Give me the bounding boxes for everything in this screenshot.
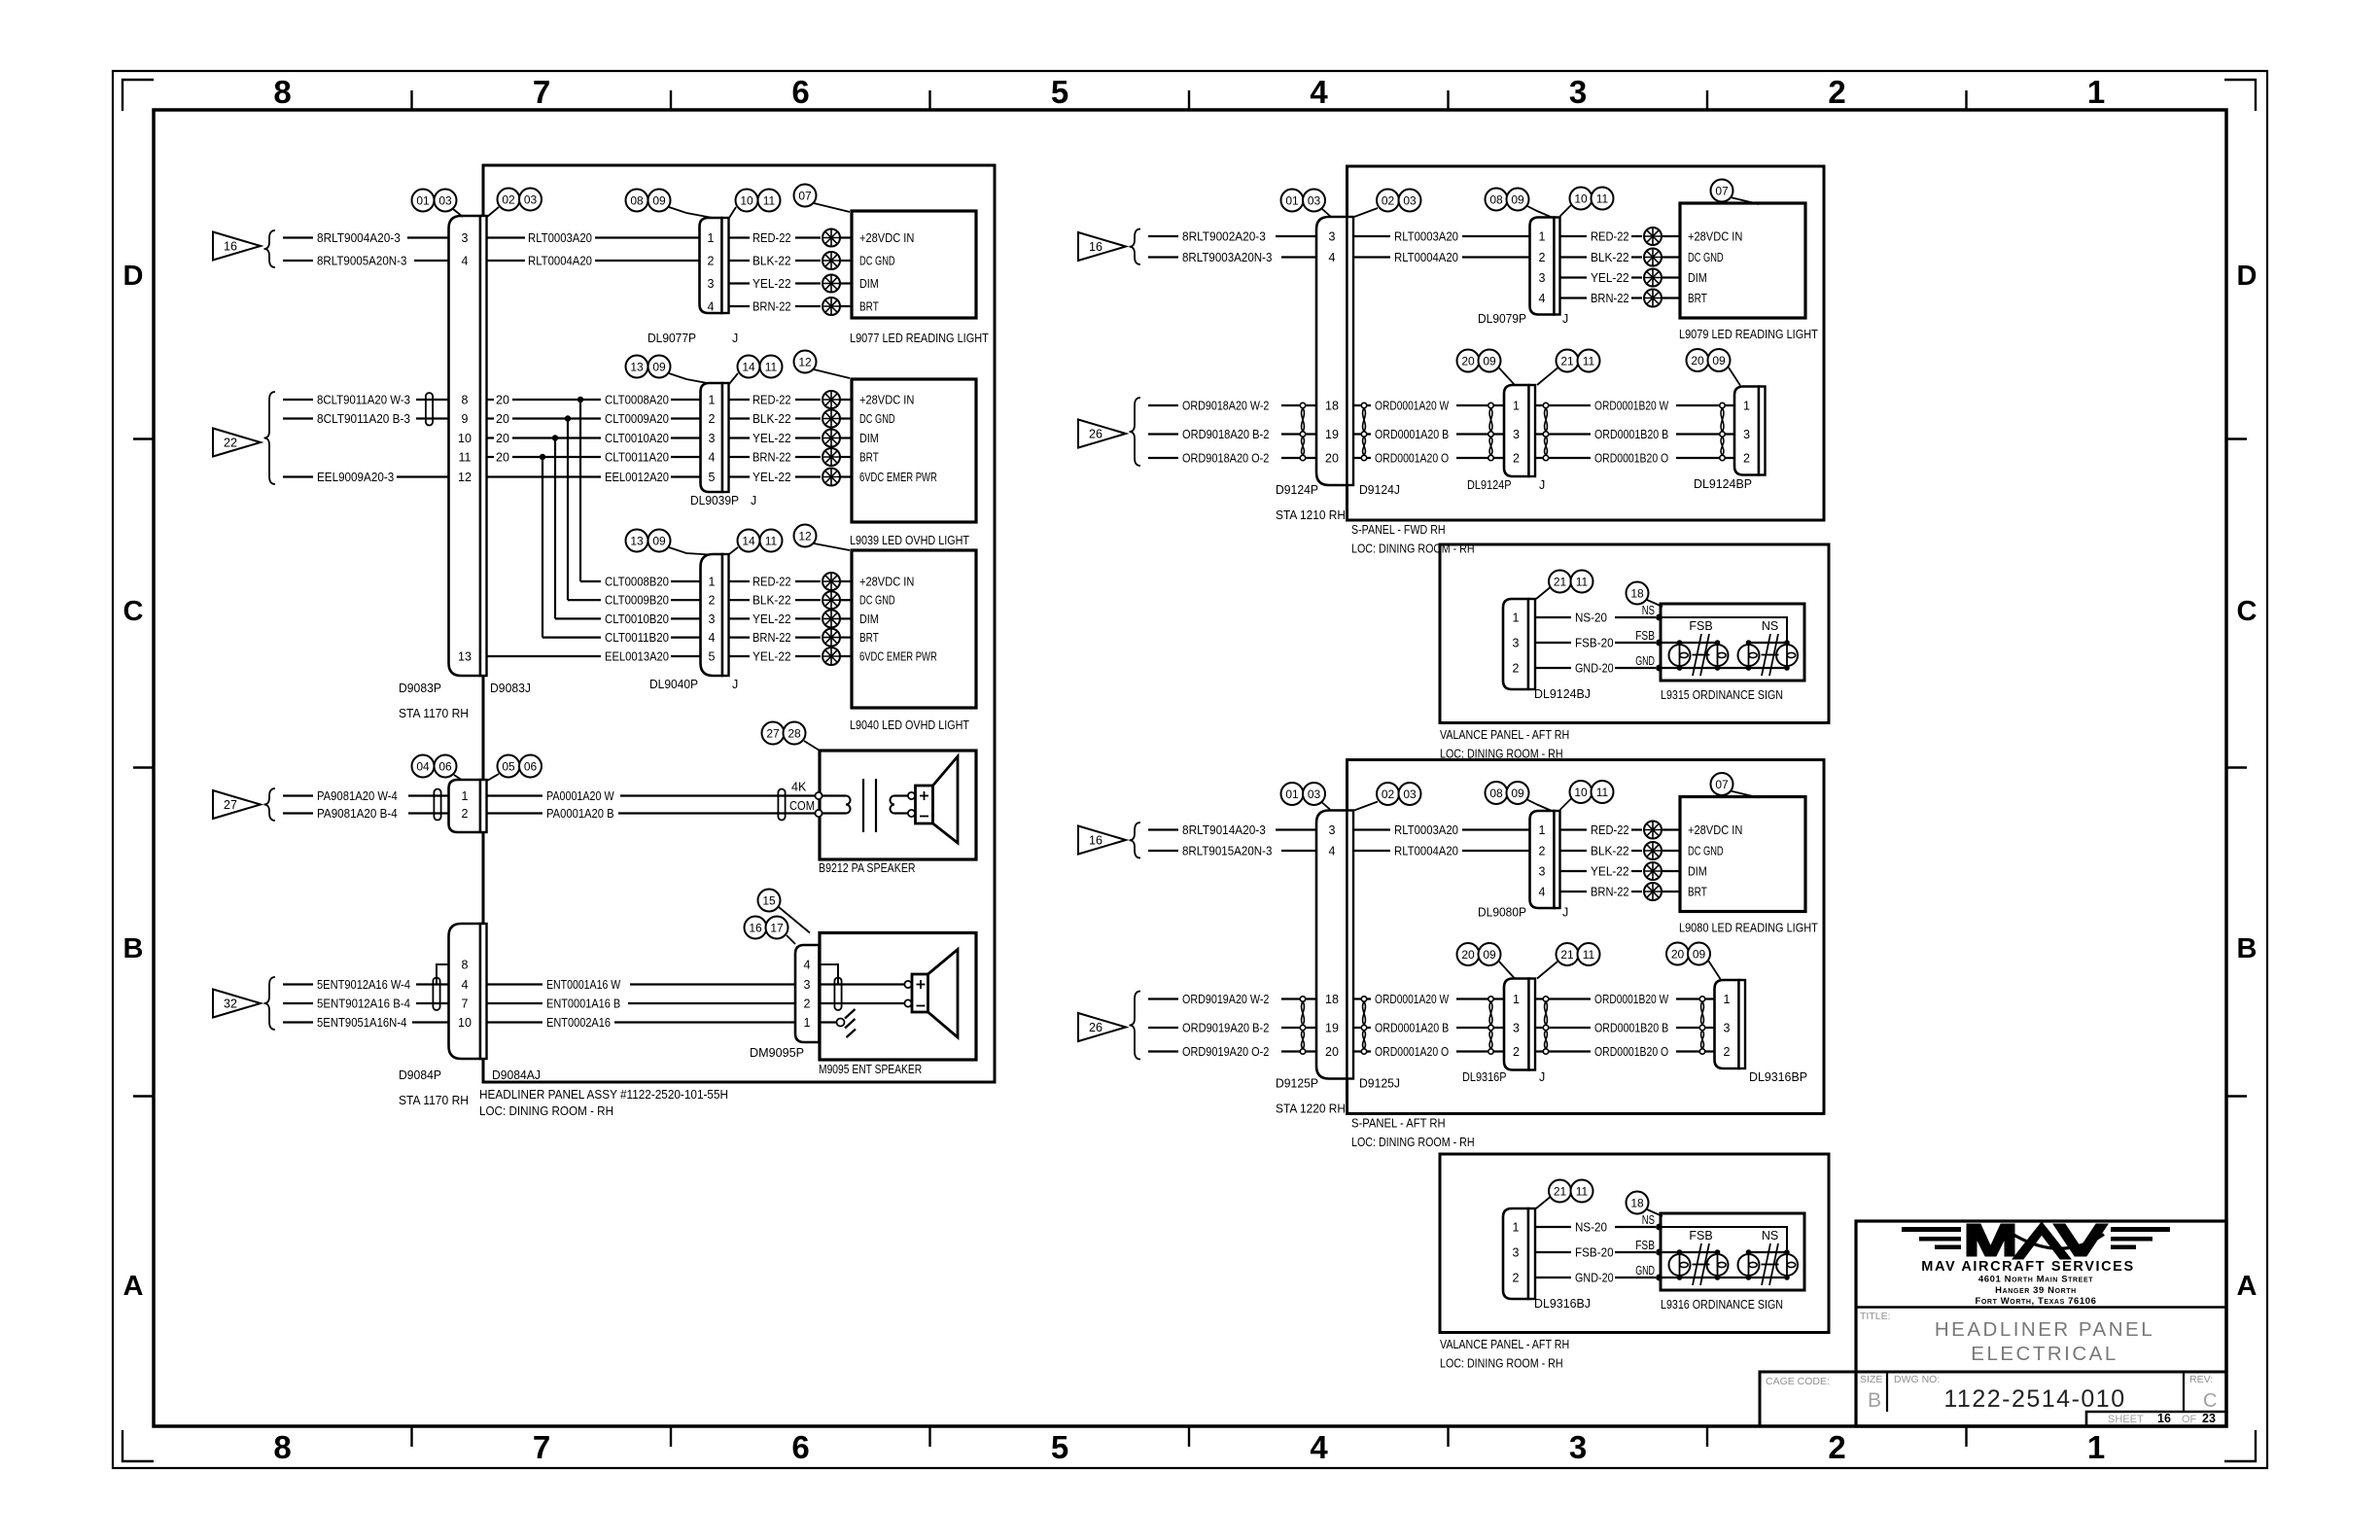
wire stub 5ENT9012A16 W-4	[283, 983, 313, 985]
connector D9083P pin numbers	[458, 231, 472, 664]
label D9083P	[399, 682, 441, 695]
twist symbol DL9124BP left	[1720, 402, 1725, 460]
svg-text:DL9124BP: DL9124BP	[1694, 477, 1752, 491]
balloon 09 L9040	[648, 530, 671, 552]
connector D9084AJ PA strip	[480, 780, 487, 832]
svg-text:1: 1	[1539, 823, 1546, 837]
svg-text:VALANCE PANEL - AFT RH: VALANCE PANEL - AFT RH	[1440, 1338, 1569, 1351]
minus sign B9212	[920, 816, 928, 818]
wire name YEL-22 L9039	[752, 432, 791, 445]
wire name YEL-22 L9039	[752, 471, 791, 484]
logo address line 2	[1995, 1285, 2077, 1296]
svg-text:J: J	[1539, 1070, 1545, 1084]
svg-text:L9077 LED READING LIGHT: L9077 LED READING LIGHT	[850, 332, 989, 345]
title HEADLINER PANEL	[1935, 1318, 2154, 1341]
connector DL9080P body	[1530, 811, 1555, 908]
leader 28 to B9212	[804, 741, 820, 751]
wire YEL-22 L9079 seg2	[1631, 276, 1642, 278]
svg-text:EEL0012A20: EEL0012A20	[605, 471, 669, 484]
connector DL9039P pin numbers	[709, 394, 716, 485]
leader 18 L9315	[1647, 600, 1662, 607]
lamp L9316 x1838	[1776, 1249, 1798, 1280]
wire branch vertical CLT0009B20	[567, 419, 569, 601]
svg-text:12: 12	[458, 471, 472, 484]
leader 21 DL9316P	[1537, 962, 1557, 979]
wire stub 8RLT9003A20N-3	[1148, 256, 1178, 258]
svg-text:YEL-22: YEL-22	[752, 650, 791, 664]
zone boundary ticks top and bottom	[412, 90, 1967, 1447]
wire PA0001A20 B seg1	[487, 812, 543, 814]
wire name EEL9009A20-3	[317, 471, 394, 484]
label valance panel L9316	[1440, 1338, 1569, 1351]
svg-text:HEADLINER PANEL ASSY #1122-252: HEADLINER PANEL ASSY #1122-2520-101-55H	[479, 1088, 728, 1102]
valance panel box L9316	[1440, 1154, 1829, 1333]
svg-text:L9040 LED OVHD LIGHT: L9040 LED OVHD LIGHT	[850, 718, 969, 732]
stub label FSB L9315	[1635, 629, 1655, 643]
NS wire inner L9315	[1660, 617, 1788, 643]
svg-text:CLT0011B20: CLT0011B20	[605, 631, 669, 645]
svg-text:5: 5	[709, 471, 716, 484]
svg-text:20: 20	[496, 432, 509, 445]
svg-text:20: 20	[496, 412, 509, 426]
svg-text:Fort Worth, Texas 76106: Fort Worth, Texas 76106	[1975, 1296, 2096, 1307]
connector DL9124BJ pin numbers	[1513, 612, 1520, 676]
wire name 8RLT9004A20-3	[317, 231, 401, 245]
balloon 16b	[745, 917, 767, 939]
svg-text:09: 09	[1483, 948, 1496, 962]
label DL9124BJ	[1534, 687, 1591, 701]
wire stub row3	[283, 236, 313, 238]
switch FSB L9315	[1689, 619, 1712, 676]
wire RED-22 L9039 seg3	[840, 399, 852, 401]
svg-text:27: 27	[224, 798, 237, 812]
wire ORD0001B20 O seg1	[1535, 1050, 1591, 1052]
balloon 11 L9040	[760, 530, 783, 552]
wire ORD9018A20 B-2 to conn	[1281, 433, 1316, 435]
svg-text:D: D	[123, 261, 144, 292]
stub label FSB L9316	[1635, 1239, 1655, 1252]
border inner frame	[154, 110, 2226, 1426]
balloon 07	[794, 185, 817, 207]
balloon 21 DL9124BJ	[1549, 571, 1571, 593]
wire RED-22 L9080 seg2	[1631, 828, 1642, 830]
svg-text:STA 1220 RH: STA 1220 RH	[1276, 1102, 1346, 1116]
svg-text:03: 03	[1403, 787, 1417, 801]
wire name RED-22 L9039	[752, 394, 791, 407]
svg-text:RLT0004A20: RLT0004A20	[528, 255, 592, 268]
connector DL9124P pin numbers	[1513, 400, 1520, 466]
title ELECTRICAL	[1971, 1343, 2117, 1365]
svg-text:RED-22: RED-22	[752, 394, 791, 407]
brace arrow 32	[264, 977, 276, 1030]
wire BLK-22 L9039 seg1	[729, 417, 751, 419]
svg-text:6: 6	[791, 1429, 809, 1465]
leader 05 to strip	[487, 774, 499, 781]
wire row8 seg2	[512, 399, 583, 401]
svg-text:PA9081A20 B-4: PA9081A20 B-4	[317, 807, 398, 821]
wire BLK-22 L9080 seg3	[1662, 850, 1680, 852]
svg-text:3: 3	[1569, 1429, 1587, 1465]
connector DL9080P J strip	[1555, 811, 1560, 908]
balloon 09 DL9316P	[1479, 943, 1501, 965]
svg-text:1: 1	[1513, 612, 1520, 625]
balloon 15	[758, 890, 781, 912]
terminal 4K	[815, 792, 822, 799]
svg-text:3: 3	[1539, 271, 1546, 285]
L9040 terminal labels	[859, 576, 937, 664]
MAV logo	[1902, 1222, 2170, 1259]
balloon 03b D9125P	[1399, 783, 1421, 805]
svg-text:16: 16	[224, 240, 237, 254]
wire ORD0001A20 O seg2	[1456, 457, 1504, 459]
wire BLK-22 L9077 seg3	[840, 260, 852, 262]
svg-text:LOC: DINING ROOM - RH: LOC: DINING ROOM - RH	[479, 1104, 613, 1118]
svg-text:L9079 LED READING LIGHT: L9079 LED READING LIGHT	[1679, 328, 1818, 341]
balloon 08 DL9080P	[1486, 782, 1508, 804]
wire RED-22 L9080 seg1	[1560, 828, 1588, 830]
svg-text:B9212 PA SPEAKER: B9212 PA SPEAKER	[819, 861, 916, 875]
lamp L9039 RED-22	[822, 391, 840, 408]
wire branch horiz CLT0010B20	[555, 617, 601, 619]
wire name BRN-22 L9079	[1591, 292, 1629, 305]
transformer primary wire bottom	[822, 812, 846, 814]
wire BLK-22 L9080 seg2	[1631, 850, 1642, 852]
wire YEL-22 L9079 seg1	[1560, 276, 1588, 278]
svg-text:1: 1	[804, 1016, 811, 1030]
svg-text:DC GND: DC GND	[1688, 845, 1724, 858]
label loc S-PANEL - AFT RH	[1351, 1136, 1475, 1149]
transformer secondary wire top	[894, 794, 908, 796]
svg-text:7: 7	[533, 1429, 550, 1465]
wire name ORD0001A20 B S-PANEL - FWD RH	[1375, 428, 1449, 441]
wire ORD9018A20 W-2 to conn	[1281, 404, 1316, 406]
svg-text:16: 16	[1089, 834, 1102, 848]
balloon 02 D9124P	[1377, 190, 1399, 212]
leader from balloon 02 to D9083J	[487, 207, 499, 217]
wire name ORD0001B20 W S-PANEL - AFT RH	[1594, 993, 1668, 1006]
svg-text:YEL-22: YEL-22	[752, 277, 791, 291]
wire EEL0013A20 seg1	[487, 655, 602, 657]
svg-text:+28VDC IN: +28VDC IN	[859, 394, 914, 407]
wire BRN-22 L9080 seg1	[1560, 891, 1588, 892]
lamp L9040 YEL-22	[822, 647, 840, 665]
corner bracket bottom-left	[122, 1430, 154, 1461]
balloon 02 D9125P	[1377, 783, 1399, 805]
balloon 01	[412, 190, 435, 212]
wire BLK-22 L9039 seg2	[795, 417, 821, 419]
balloon 09 DL9080P	[1507, 782, 1529, 804]
svg-text:16: 16	[1089, 240, 1102, 254]
wire gauge 20 row8 seg1	[487, 399, 495, 401]
letter size B	[1868, 1389, 1881, 1412]
svg-text:3: 3	[1513, 637, 1520, 650]
chassis ground terminal	[837, 1019, 845, 1027]
svg-text:20: 20	[1325, 452, 1339, 466]
balloon 13 L9040	[626, 530, 648, 552]
wire branch horiz CLT0011B20	[542, 636, 601, 638]
connector DL9316BP pin numbers	[1724, 993, 1731, 1059]
svg-text:DC GND: DC GND	[859, 412, 895, 426]
svg-text:4: 4	[709, 631, 716, 645]
wire 8RLT9004A20-3 to pin 3	[407, 236, 449, 238]
svg-text:ORD0001A20 W: ORD0001A20 W	[1375, 993, 1449, 1006]
wire ORD9019A20 W-2 to conn	[1281, 997, 1316, 999]
svg-text:S-PANEL - AFT RH: S-PANEL - AFT RH	[1351, 1117, 1446, 1131]
svg-text:DIM: DIM	[859, 277, 879, 291]
wire YEL-22 L9080 seg3	[1662, 870, 1680, 872]
svg-text:RLT0004A20: RLT0004A20	[1394, 251, 1458, 264]
wire name ORD0001B20 O S-PANEL - FWD RH	[1594, 452, 1668, 466]
svg-text:3: 3	[804, 978, 811, 992]
svg-text:J: J	[732, 332, 738, 345]
wire name CLT0010A20	[605, 432, 669, 445]
wire GND-20 seg2 L9315	[1615, 667, 1656, 669]
svg-text:18: 18	[1325, 400, 1339, 413]
svg-text:14: 14	[742, 534, 755, 547]
svg-text:B: B	[1868, 1389, 1881, 1412]
wire CLT0009A20 to DL9039P pin2	[671, 417, 701, 419]
label J DL9077	[732, 332, 738, 345]
terminal dot GND L9316	[1656, 1275, 1662, 1281]
balloon 12 L9040	[794, 525, 817, 547]
svg-text:ENT0002A16: ENT0002A16	[546, 1016, 611, 1030]
wire stub ORD9018A20 B-2	[1148, 433, 1178, 435]
balloon 11 DL9079P	[1592, 188, 1614, 210]
wire row10 seg2	[512, 437, 558, 438]
svg-text:3: 3	[1724, 1022, 1731, 1035]
svg-text:RLT0003A20: RLT0003A20	[528, 231, 592, 245]
svg-text:OF: OF	[2182, 1414, 2197, 1425]
connector DL9124BJ body	[1503, 599, 1528, 689]
svg-text:11: 11	[459, 451, 472, 465]
wire name BRN-22 L9039	[752, 451, 791, 465]
wire name PA9081A20 B-4	[317, 807, 398, 821]
jumper pin 8 to pin 4	[437, 964, 449, 985]
label D9125J	[1359, 1077, 1400, 1091]
transformer secondary coil	[891, 796, 895, 814]
svg-text:DL9077P: DL9077P	[647, 332, 696, 345]
wire name 8RLT9015A20N-3	[1182, 845, 1272, 858]
svg-text:32: 32	[224, 997, 237, 1011]
wire 5ENT9012A16 W-4 to pin 4	[416, 983, 449, 985]
NS wire inner L9316	[1660, 1227, 1788, 1252]
L9039 terminal labels	[859, 394, 937, 485]
wire ORD0001A20 O seg1	[1353, 1050, 1371, 1052]
svg-text:11: 11	[1596, 786, 1609, 799]
wire YEL-22 L9039 seg1	[729, 437, 751, 438]
balloon 04	[412, 755, 435, 778]
wire name ORD0001A20 B S-PANEL - AFT RH	[1375, 1022, 1449, 1035]
svg-text:A: A	[123, 1271, 144, 1302]
wire name ORD0001A20 O S-PANEL - FWD RH	[1375, 452, 1449, 466]
wire CLT0011A20 to DL9039P pin4	[671, 456, 701, 458]
svg-text:4: 4	[1329, 251, 1336, 264]
junction dot CLT0009A20	[565, 415, 571, 421]
wire stub PA9081A20 W-4	[283, 794, 313, 796]
wire GND-20 seg2 L9316	[1615, 1277, 1656, 1278]
svg-text:09: 09	[1712, 354, 1726, 367]
svg-text:2: 2	[709, 412, 716, 426]
svg-text:REV:: REV:	[2189, 1374, 2213, 1385]
wire RLT0003A20 S-PANEL - FWD RH seg1	[1353, 235, 1390, 237]
wire name ENT0002A16	[546, 1016, 611, 1030]
connector D9084P ENT pin numbers	[458, 959, 472, 1031]
wire NS-20 seg2 L9315	[1615, 616, 1656, 618]
label valance loc L9315	[1440, 748, 1563, 761]
label 20 row8	[496, 394, 509, 407]
wire ORD0001B20 O seg1	[1535, 457, 1591, 459]
svg-text:ELECTRICAL: ELECTRICAL	[1971, 1343, 2117, 1365]
cage code box	[1760, 1372, 1856, 1426]
balloon 09 L9039	[648, 356, 671, 378]
label J DL9079P	[1562, 312, 1568, 326]
wire RED-22 L9077 seg1	[729, 236, 751, 238]
svg-text:ORD0001B20 W: ORD0001B20 W	[1594, 993, 1668, 1006]
wire YEL-22 L9040 seg2	[795, 655, 821, 657]
lamp L9080 YEL-22	[1644, 862, 1662, 880]
leader 07 L9080	[1731, 791, 1759, 798]
connector DL9316BP J strip	[1739, 980, 1746, 1068]
wire RLT0004A20 S-PANEL - FWD RH seg2	[1462, 256, 1530, 258]
lamp L9077 YEL-22	[822, 275, 840, 293]
svg-text:20: 20	[1461, 948, 1475, 962]
label DL9077P	[647, 332, 696, 345]
connector DL9316BP body	[1715, 980, 1739, 1068]
svg-text:3: 3	[1513, 1246, 1520, 1260]
svg-text:J: J	[1562, 906, 1568, 920]
svg-text:BRT: BRT	[859, 300, 879, 314]
svg-text:08: 08	[1489, 192, 1503, 206]
brace 26 S-PANEL - AFT RH	[1130, 992, 1141, 1060]
label DL9124BP	[1694, 477, 1752, 491]
speaker driver M9095	[912, 974, 928, 1012]
wire name BLK-22 L9039	[752, 412, 791, 426]
balloon 21 DL9316BJ	[1549, 1180, 1571, 1203]
wire name BLK-22 L9040	[752, 594, 791, 608]
wire ORD0001B20 W seg1	[1535, 404, 1591, 406]
twist symbol D9124J right	[1361, 402, 1366, 460]
leader 09 DL9124BP	[1729, 367, 1740, 386]
svg-text:NS-20: NS-20	[1575, 612, 1607, 625]
svg-text:CLT0008A20: CLT0008A20	[605, 394, 669, 407]
svg-text:4: 4	[709, 451, 716, 465]
wire ORD0001B20 O seg2	[1676, 1050, 1715, 1052]
svg-text:8RLT9005A20N-3: 8RLT9005A20N-3	[317, 255, 406, 268]
svg-text:2: 2	[1539, 251, 1546, 264]
label L9315 ORDINANCE SIGN	[1661, 688, 1783, 702]
svg-text:2: 2	[1513, 1272, 1520, 1285]
svg-text:08: 08	[630, 193, 644, 207]
wire ORD0001A20 W seg1	[1353, 997, 1371, 999]
svg-text:DL9040P: DL9040P	[649, 678, 698, 691]
wire ENT0002A16 seg2	[614, 1021, 795, 1023]
svg-text:8RLT9015A20N-3: 8RLT9015A20N-3	[1182, 845, 1272, 858]
wire name ORD0001B20 B S-PANEL - AFT RH	[1594, 1022, 1668, 1035]
svg-text:3: 3	[1329, 823, 1336, 837]
svg-text:5: 5	[1051, 74, 1068, 110]
wire name RED-22 L9080	[1591, 823, 1629, 837]
wire YEL-22 L9040 seg3	[840, 617, 852, 619]
svg-text:2: 2	[1513, 1045, 1520, 1059]
svg-text:C: C	[123, 596, 144, 627]
svg-text:B: B	[2237, 933, 2257, 964]
svg-text:YEL-22: YEL-22	[752, 612, 791, 626]
label J DL9124P	[1539, 478, 1545, 492]
connector DL9316BJ body	[1503, 1208, 1528, 1299]
svg-text:STA 1210 RH: STA 1210 RH	[1276, 508, 1346, 522]
svg-text:2: 2	[708, 255, 715, 268]
svg-text:8RLT9002A20-3: 8RLT9002A20-3	[1182, 230, 1266, 244]
wire stub ORD9019A20 B-2	[1148, 1027, 1178, 1029]
balloon 07 L9080	[1711, 773, 1733, 795]
wire RED-22 L9040 seg2	[795, 580, 821, 582]
svg-text:7: 7	[533, 74, 550, 110]
svg-text:GND-20: GND-20	[1575, 662, 1614, 676]
svg-text:3: 3	[462, 231, 469, 245]
junction dot CLT0011A20	[540, 454, 545, 460]
svg-text:CLT0008B20: CLT0008B20	[605, 576, 669, 589]
label DL9079P	[1478, 312, 1526, 326]
leader 10 DL9079P	[1560, 205, 1572, 217]
svg-text:BLK-22: BLK-22	[752, 594, 791, 608]
svg-text:CLT0011A20: CLT0011A20	[605, 451, 669, 465]
wire RLT0004A20 S-PANEL - FWD RH seg1	[1353, 256, 1390, 258]
svg-text:2: 2	[462, 807, 469, 821]
wire RLT0004A20 S-PANEL - AFT RH seg2	[1462, 850, 1530, 852]
twisted pair symbol arrow 22	[426, 393, 433, 426]
svg-text:RLT0004A20: RLT0004A20	[1394, 845, 1458, 858]
rev divider	[2183, 1372, 2185, 1412]
L9079 terminal labels	[1688, 230, 1742, 306]
svg-text:22: 22	[224, 437, 237, 450]
wire stub EEL9009A20-3	[283, 475, 313, 477]
wire to speaker minus	[820, 1002, 905, 1004]
svg-text:ENT0001A16 W: ENT0001A16 W	[546, 978, 620, 992]
wire BRN-22 L9080 seg2	[1631, 891, 1642, 892]
wire stub 5ENT9012A16 B-4	[283, 1002, 313, 1004]
wire RED-22 L9039 seg2	[795, 399, 821, 401]
lamp L9079 YEL-22	[1644, 269, 1662, 287]
wire name BLK-22 L9079	[1591, 251, 1629, 264]
svg-text:DL9124BJ: DL9124BJ	[1534, 687, 1591, 701]
svg-text:1: 1	[1513, 400, 1520, 413]
svg-text:HEADLINER PANEL: HEADLINER PANEL	[1935, 1318, 2154, 1341]
label D9084P	[399, 1068, 441, 1082]
svg-text:1: 1	[709, 394, 716, 407]
L9077 terminal labels	[859, 231, 914, 314]
L9315 ordinance sign box	[1661, 604, 1804, 681]
wire name 8RLT9005A20N-3	[317, 255, 406, 268]
label L9080 LED READING LIGHT	[1679, 922, 1818, 935]
wire BRN-22 L9077 seg1	[729, 305, 751, 307]
svg-text:15: 15	[762, 893, 776, 907]
wire CLT0008A20 to DL9039P pin1	[671, 399, 701, 401]
svg-text:8: 8	[273, 74, 291, 110]
svg-text:NS-20: NS-20	[1575, 1221, 1607, 1235]
lamp L9040 YEL-22	[822, 610, 840, 627]
wire YEL-22 L9077 seg1	[729, 282, 751, 284]
svg-text:8CLT9011A20 W-3: 8CLT9011A20 W-3	[317, 394, 410, 407]
wire row11 seg2	[512, 456, 545, 458]
wire name ORD9019A20 B-2	[1182, 1022, 1269, 1035]
corner bracket bottom-right	[2224, 1430, 2256, 1461]
svg-text:FSB: FSB	[1689, 1229, 1712, 1242]
svg-text:1: 1	[2087, 74, 2105, 110]
svg-text:3: 3	[1743, 428, 1750, 441]
wire 8RLT9014A20-3 to pin3	[1276, 828, 1316, 830]
lamp L9080 BRN-22	[1644, 883, 1662, 900]
wire name ORD0001A20 W S-PANEL - FWD RH	[1375, 400, 1449, 413]
